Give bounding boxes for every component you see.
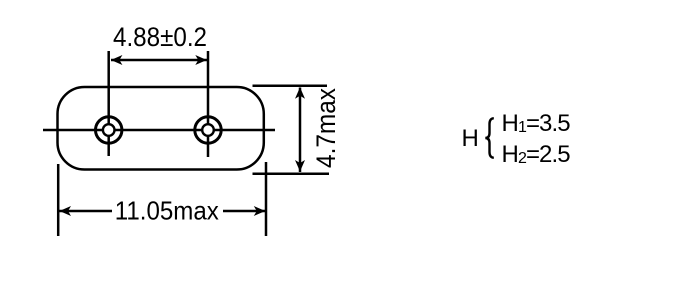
pin 2 inner circle: [202, 124, 214, 136]
4.7max top extension line: [253, 84, 328, 87]
svg-text:H: H: [462, 125, 479, 152]
svg-text:4.7max: 4.7max: [311, 88, 341, 168]
11.05max left extension line: [57, 164, 60, 236]
4.7max dimension line: [299, 88, 302, 173]
svg-text:H2=2.5: H2=2.5: [502, 141, 571, 168]
pin 2 outer circle: [195, 117, 221, 143]
svg-text:11.05max: 11.05max: [115, 196, 219, 226]
pin 2 vertical centerline / extension line: [207, 51, 210, 157]
dimension line 4.88: [111, 59, 207, 62]
11.05max dimension line left segment: [59, 210, 112, 213]
package body outline: [58, 87, 264, 170]
4.7max bottom extension line: [253, 172, 330, 175]
horizontal centerline: [43, 129, 275, 132]
pin 1 outer circle: [96, 117, 122, 143]
svg-text:4.88±0.2: 4.88±0.2: [113, 22, 207, 52]
pin 1 vertical centerline / extension line: [107, 51, 110, 156]
11.05max right extension line: [265, 162, 268, 236]
pin 1 inner circle: [103, 124, 115, 136]
11.05max dimension line right segment: [223, 210, 265, 213]
svg-text:H1=3.5: H1=3.5: [502, 110, 571, 137]
brace: [485, 118, 494, 158]
